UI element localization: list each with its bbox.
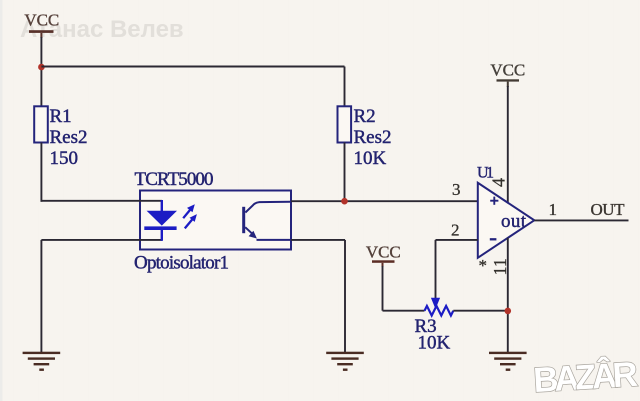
svg-text:TCRT5000: TCRT5000 [135, 169, 214, 190]
LED emission arrows [183, 204, 197, 228]
svg-text:3: 3 [452, 180, 461, 199]
svg-text:4: 4 [489, 178, 509, 187]
wire R3 right to node (horizontal) [453, 310, 508, 312]
svg-text:R1: R1 [50, 106, 72, 127]
svg-text:BAZÂR: BAZÂR [532, 354, 638, 400]
power VCC (op-amp supply) [490, 61, 525, 88]
wire bus to R2 top (vertical) [344, 67, 346, 108]
op-amp U1 triangle [478, 183, 535, 258]
svg-text:VCC: VCC [24, 11, 59, 30]
wire VCC to op-amp pin 4 (vertical) [507, 86, 509, 203]
resistor R2 body [338, 106, 352, 142]
wire R1 bottom to optoisolator anode (vertical) [40, 143, 42, 202]
resistor R2 labels (R2 / Res2 / 10K) [354, 106, 392, 169]
wire VCC3 to R3 (horizontal) [383, 310, 425, 312]
wire top bus (horizontal VCC rail) [41, 66, 344, 68]
potentiometer R3 wiper arrow [431, 298, 440, 309]
svg-text:out: out [501, 211, 527, 232]
svg-text:10K: 10K [418, 333, 451, 354]
wire op-amp output (horizontal) [534, 219, 628, 221]
wire VCC3 down (vertical) [382, 266, 384, 311]
wire emitter (horizontal) [291, 239, 345, 241]
wire VCC1 to R1 (vertical) [40, 37, 42, 107]
svg-text:150: 150 [50, 148, 79, 169]
wire pin 2 (horizontal) [436, 239, 478, 241]
wire emitter to ground (vertical) [344, 240, 346, 353]
power VCC (R3 left terminal) [366, 243, 401, 268]
junction node (R3 / pin11 / ground) [505, 308, 512, 315]
wire optoisolator cathode (horizontal) [41, 239, 162, 241]
svg-text:VCC: VCC [490, 61, 525, 80]
resistor R1 labels (R1 / Res2 / 150) [50, 106, 88, 169]
phototransistor (optoisolator output) [242, 202, 291, 240]
junction node (VCC / R1 / top bus) [38, 64, 45, 71]
svg-text:R2: R2 [354, 106, 376, 127]
wire to optoisolator anode (horizontal) [41, 200, 163, 202]
svg-text:OUT: OUT [591, 200, 626, 219]
ground (right, op-amp V-) [489, 352, 527, 371]
wire pin 2 down to R3 wiper (vertical) [435, 240, 437, 299]
svg-text:2: 2 [451, 221, 460, 240]
potentiometer R3 zigzag [425, 306, 454, 316]
wire R2 bottom to node (vertical) [344, 143, 346, 202]
potentiometer R3 labels (R3 / 10K) [415, 316, 451, 354]
wire collector to op-amp pin3 (horizontal) [291, 200, 478, 202]
wire op-amp pin 11 down (vertical) [507, 238, 509, 353]
svg-text:Res2: Res2 [354, 127, 392, 148]
op-amp plus input marker [490, 197, 498, 205]
resistor R1 body [34, 106, 48, 142]
op-amp minus input marker [490, 238, 497, 240]
svg-text:1: 1 [549, 200, 558, 219]
junction node (R2 / collector / pin3) [341, 198, 348, 205]
svg-text:VCC: VCC [366, 243, 401, 262]
ground (left, LED cathode) [23, 352, 61, 371]
power VCC (top-left net VCC) [24, 11, 59, 39]
ground (middle, emitter) [326, 352, 364, 371]
svg-text:10K: 10K [354, 148, 387, 169]
svg-text:*: * [479, 256, 488, 275]
svg-text:Res2: Res2 [50, 127, 88, 148]
LED (optoisolator emitter diode) [144, 200, 177, 241]
optoisolator Optoisolator1 box [140, 191, 291, 250]
svg-text:Optoisolator1: Optoisolator1 [134, 253, 229, 274]
wire cathode to ground (vertical) [40, 240, 42, 353]
